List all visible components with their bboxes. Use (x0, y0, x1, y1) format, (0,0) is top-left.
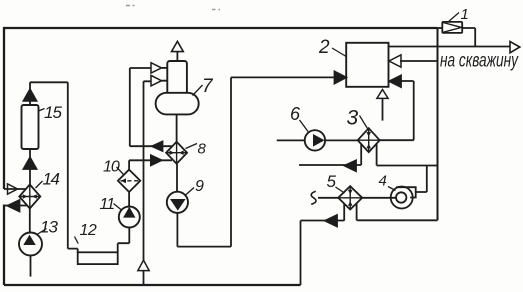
svg-text:5: 5 (327, 172, 337, 191)
leader label 6 (300, 120, 309, 132)
leader label 9 (185, 188, 194, 196)
wire: pump 9 to mixer 8 (176, 164, 178, 192)
flow arrow left on return (8, 200, 20, 212)
pump 6 (305, 130, 325, 150)
mixer 5 (338, 186, 362, 209)
leader label 14 (36, 181, 43, 188)
wire: triangle to column (162, 67, 168, 69)
open arrow into box 2 right (389, 55, 401, 67)
flow arrow left on wire A (152, 142, 163, 152)
svg-text:2: 2 (318, 37, 330, 58)
wire: bottom return line (4, 284, 301, 286)
wire: riser from pump 9 loop (177, 77, 231, 246)
svg-text:12: 12 (80, 222, 97, 239)
column 7 (156, 61, 199, 114)
wire: valve 1 outlet loop (462, 28, 475, 47)
wire: 14 down to pump 13 (29, 209, 31, 234)
flow arrow right into box 2 (335, 72, 347, 84)
wire: left return down (3, 205, 5, 286)
mixer 8 (166, 142, 187, 164)
open arrow into box 2 bottom (377, 90, 388, 99)
svg-text:10: 10 (103, 159, 120, 176)
wire: oval to mixer 8 (176, 114, 178, 141)
wire: mixer 5 lower-right out (357, 203, 438, 220)
svg-text:11: 11 (100, 196, 115, 213)
open arrow into column upper (151, 63, 162, 73)
open arrow to well (510, 42, 520, 53)
filter 15 (22, 105, 39, 149)
wire: pump 6 suction (277, 139, 305, 141)
svg-text:15: 15 (44, 103, 62, 122)
wire: mixer 8 to column loop (upper) (130, 68, 172, 146)
wire: main right riser (437, 28, 439, 220)
open vent arrow up (172, 41, 184, 51)
svg-text:6: 6 (290, 104, 301, 124)
svg-text:4: 4 (379, 173, 387, 190)
wire: outlet line to well (389, 46, 511, 48)
leader label 11 (114, 204, 122, 211)
wire: fan 4 suction (362, 197, 396, 199)
pump 11 (119, 207, 140, 228)
leader label 5 (336, 187, 345, 193)
open arrow into 14 (8, 184, 18, 194)
wire: left header line (3, 27, 5, 189)
wire: into valve 1 (438, 27, 443, 29)
flow arrow left toward riser (325, 215, 337, 227)
wire: feed into box 2 left (231, 76, 335, 78)
flow arrow up above 15 (24, 89, 37, 101)
wire: inlet into valve 14 (4, 188, 26, 190)
wire: top header line (4, 27, 438, 29)
svg-text:1: 1 (461, 6, 469, 23)
flow arrow left into box 2 (389, 76, 401, 88)
open arrow into column lower (151, 75, 162, 86)
valve 1 body (442, 22, 462, 33)
valve 14 (19, 185, 40, 209)
svg-text:3: 3 (347, 107, 359, 130)
wire: mixer 3 right to box 2 (380, 81, 414, 140)
wire: return from valve 14 (4, 205, 28, 207)
svg-text:14: 14 (43, 170, 60, 189)
flow arrow left on bypass (345, 160, 357, 171)
fan 4 (391, 187, 416, 209)
leader label 2 (332, 48, 346, 57)
flow arrow up between 14 and 15 (24, 158, 37, 170)
leader label 8 (186, 144, 198, 149)
wire: pump 11 down to exchanger 12 (118, 228, 130, 253)
wire: branch into box 2 right (upper) (400, 60, 438, 62)
wire: open inlet with break mark (318, 197, 338, 199)
leader label 13 (37, 229, 47, 235)
svg-text:9: 9 (195, 178, 204, 195)
open arrow up near bottom (138, 260, 149, 270)
wire: fan 4 discharge to mixer 3 (377, 144, 438, 192)
leader label 12 (75, 237, 79, 244)
scan specks top (126, 6, 220, 10)
wire: 15 down to valve 14 (29, 149, 31, 185)
wire: feed down to exchanger 12 (30, 82, 78, 252)
flow arrow right toward mixer 8 (151, 155, 162, 165)
leader label 1 (448, 13, 460, 23)
wire: filter 10 to pump 11 (128, 192, 130, 207)
svg-text:8: 8 (198, 141, 207, 158)
leader label 3 (360, 116, 368, 129)
pump 13 (19, 233, 42, 256)
svg-text:13: 13 (40, 218, 58, 237)
mixer 3 (358, 128, 380, 152)
heat exchanger 12 (78, 252, 118, 264)
wire: stub below box 2 (382, 98, 384, 120)
wire: mixer 3 bypass out (left) (299, 144, 361, 165)
leader label 15 (39, 109, 45, 112)
break squiggle (311, 191, 316, 204)
wire: main feed riser (143, 81, 145, 285)
wire: filter 10 to mixer 8 (129, 160, 172, 169)
wire: column vent (176, 52, 178, 61)
leader label 7 (193, 85, 203, 96)
pump 9 (167, 192, 188, 213)
box 2 (346, 43, 388, 87)
wire: lower inlet to column (144, 80, 168, 83)
wire: pump 6 to mixer 3 (325, 139, 358, 141)
leader label 4 (388, 187, 396, 191)
wire: stub into filter 15 (29, 101, 31, 106)
svg-text:7: 7 (202, 76, 214, 97)
wire: into mixer 5 lower-left (301, 204, 345, 221)
svg-text:на скважину: на скважину (440, 50, 519, 72)
leader label 10 (117, 167, 124, 175)
wire: bottom-right riser (300, 221, 302, 286)
wire: pump 13 outlet stub (30, 256, 32, 277)
filter 10 (118, 170, 140, 192)
